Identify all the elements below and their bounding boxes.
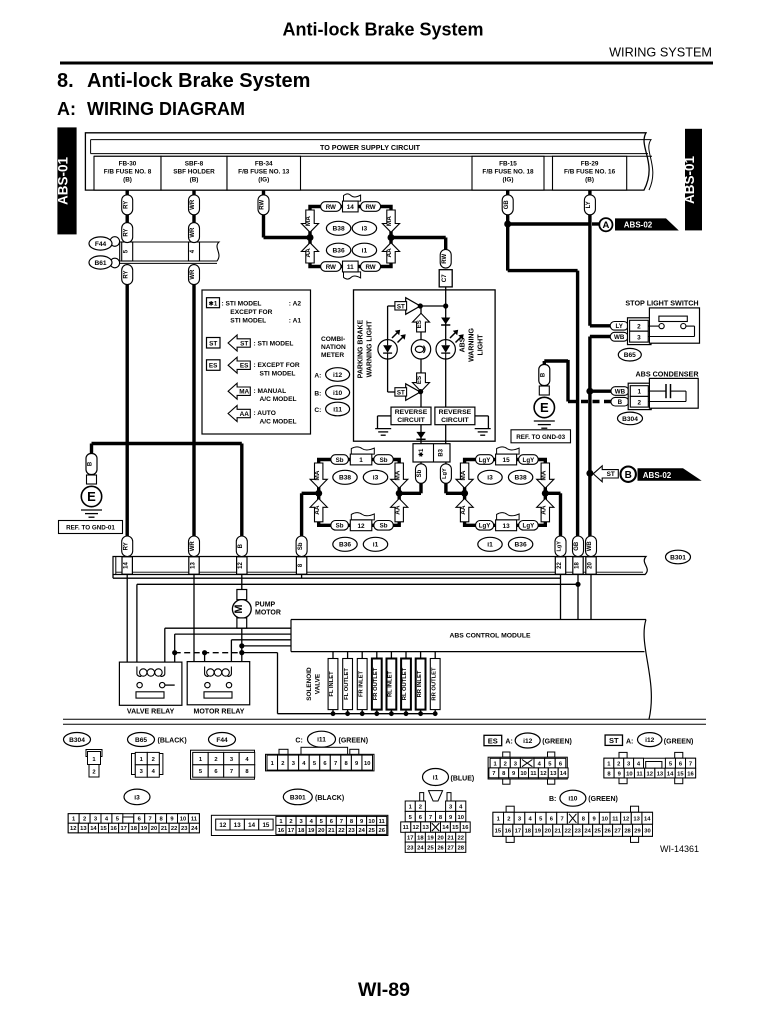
svg-text:15: 15 (503, 457, 511, 464)
svg-text:26: 26 (604, 829, 611, 835)
svg-text:AA: AA (541, 505, 548, 515)
abs condenser pin box 1/2 (628, 383, 651, 409)
label ABS CONTROL MODULE (449, 633, 531, 640)
svg-text:METER: METER (321, 352, 344, 359)
svg-text:STI MODEL: STI MODEL (230, 318, 266, 325)
svg-text:STI MODEL: STI MODEL (260, 371, 296, 378)
svg-text:WI-89: WI-89 (358, 979, 410, 1001)
wire LY to switch pin 2 (590, 324, 610, 327)
bus pin 12 wire B (236, 536, 247, 574)
solenoid valve FR INLET (357, 652, 367, 717)
svg-text:2: 2 (507, 817, 510, 823)
bus pin 18 wire GB (573, 536, 584, 574)
svg-text:ABS CONDENSER: ABS CONDENSER (635, 370, 699, 379)
svg-text:23: 23 (348, 828, 355, 834)
svg-text:ST: ST (397, 389, 405, 396)
svg-text:ST: ST (609, 736, 619, 745)
svg-text:ST: ST (397, 303, 405, 310)
svg-text:B3: B3 (438, 448, 444, 456)
svg-text:B61: B61 (94, 260, 106, 267)
connector block F44/B61 (110, 237, 219, 268)
ground E GND-03 (534, 365, 555, 429)
label PARKING BRAKE WARNING LIGHT (358, 319, 374, 378)
bus pin 14 wire RY (122, 536, 133, 574)
legend ES (207, 357, 300, 377)
svg-text:17: 17 (515, 829, 521, 835)
svg-text:AA: AA (386, 248, 393, 258)
svg-text:PARKING BRAKE: PARKING BRAKE (358, 319, 365, 378)
valve relay box (119, 662, 181, 705)
meter internal wires (388, 287, 446, 407)
svg-text:2: 2 (214, 757, 217, 763)
svg-text:EXCEPT FOR: EXCEPT FOR (230, 309, 272, 316)
svg-text:22: 22 (458, 835, 464, 841)
ABS-01 left banner (56, 127, 77, 234)
gauge symbol (411, 340, 430, 359)
svg-text:15: 15 (495, 829, 502, 835)
svg-text:i1: i1 (362, 248, 368, 255)
svg-text:14: 14 (90, 826, 97, 832)
svg-text:CIRCUIT: CIRCUIT (441, 417, 469, 424)
svg-text:16: 16 (110, 826, 117, 832)
ABS-01 right banner (682, 129, 702, 231)
svg-text:i3: i3 (373, 475, 379, 482)
wire pin 14 to valve relay contact (127, 575, 137, 686)
legend *1 (207, 298, 302, 325)
wire WR through block (189, 215, 200, 285)
svg-text:i3: i3 (134, 794, 140, 801)
svg-text:F44: F44 (95, 241, 107, 248)
svg-text:SBF-8: SBF-8 (185, 161, 204, 168)
meter connector B: i10 (314, 386, 349, 400)
abs condenser body (capacitor) (648, 378, 698, 408)
wire pin 22 to module (560, 575, 562, 620)
connector ST A: i12 pinout (604, 733, 696, 784)
svg-text:FB-29: FB-29 (581, 161, 599, 168)
connector B: i10 pinout (493, 790, 653, 842)
pill Sb below *1 (416, 462, 427, 483)
svg-text:F/B FUSE NO. 18: F/B FUSE NO. 18 (482, 169, 534, 176)
svg-text:A:: A: (57, 99, 76, 119)
svg-text:C:: C: (314, 407, 321, 414)
svg-text:NATION: NATION (321, 344, 346, 351)
svg-text:CIRCUIT: CIRCUIT (397, 417, 425, 424)
svg-text:13: 13 (657, 771, 664, 777)
svg-text:VALVE: VALVE (315, 673, 322, 694)
svg-text:RR INLET: RR INLET (417, 670, 423, 697)
wire GB from fuse, connector pill (502, 190, 513, 215)
connector i1 pinout (401, 769, 475, 853)
svg-text:(BLACK): (BLACK) (158, 738, 187, 745)
svg-text:AA: AA (314, 505, 321, 515)
figure number WI-14361 (660, 844, 699, 854)
svg-text:16: 16 (505, 829, 512, 835)
svg-text:28: 28 (624, 829, 631, 835)
svg-text:i1: i1 (433, 774, 439, 781)
svg-text:(GREEN): (GREEN) (542, 739, 572, 746)
svg-text:MOTOR: MOTOR (255, 610, 281, 617)
gate ST lower (395, 384, 420, 401)
diode to connector *1 (416, 425, 425, 444)
svg-text:SOLENOID: SOLENOID (306, 667, 313, 701)
header rule (60, 62, 713, 65)
svg-text:14: 14 (560, 771, 567, 777)
wire right branch to B3 (445, 425, 447, 444)
fuse FB-30 (94, 156, 161, 190)
svg-text:16: 16 (687, 771, 694, 777)
svg-text:REF. TO GND-03: REF. TO GND-03 (516, 434, 565, 441)
svg-text:MA: MA (239, 389, 249, 396)
svg-text:RW: RW (326, 204, 336, 211)
svg-text:2: 2 (504, 761, 507, 767)
svg-text:23: 23 (407, 845, 414, 851)
svg-text:RW: RW (442, 253, 448, 263)
svg-text:21: 21 (328, 828, 335, 834)
svg-text:RY: RY (123, 201, 129, 209)
meter connector A: i12 (314, 368, 349, 382)
module lines to relays (165, 628, 291, 677)
svg-text:RL INLET: RL INLET (388, 671, 394, 697)
svg-text:WR: WR (190, 269, 196, 280)
svg-text:10: 10 (626, 771, 632, 777)
svg-text:2: 2 (83, 817, 86, 823)
svg-text:: STI MODEL: : STI MODEL (222, 300, 262, 307)
label VALVE RELAY (127, 709, 175, 716)
svg-text:23: 23 (181, 826, 188, 832)
svg-text:ABS CONTROL MODULE: ABS CONTROL MODULE (449, 633, 531, 640)
svg-text:24: 24 (584, 829, 591, 835)
svg-text:2: 2 (419, 804, 422, 810)
svg-text:14: 14 (248, 822, 255, 829)
svg-text:2: 2 (152, 757, 155, 763)
fuse FB-15 (472, 156, 544, 190)
bus pin 20 wire WB (586, 536, 597, 574)
svg-text:C7: C7 (441, 274, 448, 282)
svg-text:F/B FUSE NO. 8: F/B FUSE NO. 8 (104, 169, 152, 176)
svg-text:MA: MA (386, 216, 393, 226)
svg-text:LgY: LgY (523, 523, 536, 530)
svg-text:20: 20 (318, 828, 324, 834)
svg-text:(GREEN): (GREEN) (664, 739, 694, 746)
svg-text:11: 11 (379, 819, 386, 825)
wire GB junction (504, 215, 590, 271)
svg-text:13: 13 (633, 817, 640, 823)
connector B61 oval (89, 256, 112, 269)
svg-text:10: 10 (364, 761, 370, 767)
stop light switch connector pills LY/WB (610, 322, 628, 342)
svg-text:13: 13 (550, 771, 557, 777)
svg-text:16: 16 (278, 828, 285, 834)
svg-text:MA: MA (394, 470, 401, 480)
svg-text:(GREEN): (GREEN) (339, 738, 369, 745)
svg-text:RW: RW (365, 204, 375, 211)
svg-text:25: 25 (594, 829, 601, 835)
bus pin 8 wire Sb (296, 536, 307, 574)
svg-text:i12: i12 (645, 737, 654, 744)
meter connector C: i11 (314, 402, 349, 416)
svg-text:1: 1 (359, 457, 363, 464)
ABS warning light LED (436, 330, 464, 359)
wire WB down to pin 20 with flag junction (586, 470, 593, 537)
connector B301 pinout (211, 789, 388, 835)
svg-text:7: 7 (560, 817, 563, 823)
svg-text:FL INLET: FL INLET (329, 671, 335, 697)
svg-text:B36: B36 (333, 248, 345, 255)
ABS control module box (291, 620, 651, 720)
svg-text:: A1: : A1 (289, 318, 302, 325)
combination meter label (321, 336, 346, 359)
arrow ES lower (413, 373, 430, 392)
svg-text:11: 11 (612, 817, 619, 823)
svg-text:15: 15 (677, 771, 684, 777)
wire RW bridge to C7 (391, 238, 446, 250)
svg-text:ES: ES (416, 376, 423, 384)
label ABS WARNING LIGHT (460, 328, 485, 362)
svg-text:i3: i3 (487, 475, 493, 482)
connector ES A: i12 pinout (484, 733, 572, 784)
connector C7 pill RW (439, 249, 452, 287)
svg-text:22: 22 (338, 828, 344, 834)
svg-text:STOP LIGHT SWITCH: STOP LIGHT SWITCH (625, 299, 698, 308)
svg-text:20: 20 (151, 826, 157, 832)
svg-text:12: 12 (238, 562, 244, 569)
svg-text:2: 2 (281, 761, 284, 767)
svg-text:AA: AA (240, 411, 250, 418)
svg-text:2: 2 (637, 323, 641, 330)
svg-text:MA: MA (305, 216, 312, 226)
fuse SBF-8 (161, 156, 227, 190)
svg-text:✱1: ✱1 (418, 448, 425, 457)
svg-text:7: 7 (334, 761, 337, 767)
svg-text:ABS-02: ABS-02 (643, 471, 672, 480)
svg-text:19: 19 (427, 835, 434, 841)
wire pump motor to junctions (232, 628, 245, 685)
connector B304 oval (618, 412, 643, 425)
wire LY down (588, 215, 591, 326)
svg-text:RY: RY (123, 542, 129, 550)
svg-text:12: 12 (623, 817, 629, 823)
subsection heading A (57, 99, 245, 119)
svg-text:24: 24 (358, 828, 365, 834)
connector F44 oval (89, 237, 112, 250)
svg-text:i11: i11 (317, 737, 326, 744)
wire RW down to bridge (264, 215, 311, 238)
svg-text:WIRING SYSTEM: WIRING SYSTEM (609, 46, 712, 60)
svg-text:LY: LY (586, 201, 592, 208)
svg-text:WIRING DIAGRAM: WIRING DIAGRAM (87, 99, 245, 119)
svg-text:13: 13 (422, 825, 429, 831)
svg-text:14: 14 (124, 562, 130, 569)
wire Sb to pin 8 (302, 493, 319, 536)
svg-text:14: 14 (442, 825, 449, 831)
svg-text:LgY: LgY (557, 541, 563, 552)
connector *1/B3 box (413, 444, 450, 462)
svg-text:B: B (88, 461, 94, 466)
svg-text:25: 25 (368, 828, 375, 834)
svg-text:ST: ST (240, 340, 248, 347)
svg-text:27: 27 (614, 829, 620, 835)
svg-text:FR INLET: FR INLET (358, 671, 364, 698)
svg-text:A/C MODEL: A/C MODEL (260, 396, 297, 403)
svg-text:Sb: Sb (336, 523, 344, 530)
svg-text:18: 18 (298, 828, 305, 834)
svg-text:12: 12 (219, 822, 226, 829)
svg-text:F/B FUSE NO. 13: F/B FUSE NO. 13 (238, 169, 290, 176)
stop light switch body (648, 308, 699, 343)
svg-text:(BLACK): (BLACK) (315, 795, 344, 802)
svg-text:19: 19 (308, 828, 315, 834)
harness bus B301 (113, 557, 647, 575)
page title (282, 20, 483, 40)
wire RY main run (125, 285, 128, 537)
svg-text:22: 22 (557, 562, 563, 569)
diode bridge Sb (connectors 1/12, B38,i3,B36,i1) (310, 447, 408, 551)
svg-text:27: 27 (447, 845, 453, 851)
svg-text:8.: 8. (57, 70, 74, 92)
svg-text:11: 11 (530, 771, 537, 777)
svg-text:WR: WR (190, 541, 196, 552)
label MOTOR RELAY (194, 709, 245, 716)
solenoid valve RL OUTLET (401, 652, 411, 717)
svg-text:REVERSE: REVERSE (395, 409, 428, 416)
connector F44 pinout (191, 733, 255, 780)
svg-text:Sb: Sb (417, 469, 423, 477)
svg-text:B301: B301 (670, 554, 686, 561)
svg-text:WI-14361: WI-14361 (660, 844, 699, 854)
svg-text:B301: B301 (290, 794, 306, 801)
svg-text:WB: WB (614, 334, 625, 341)
svg-text:A: A (602, 220, 609, 231)
svg-text:AA: AA (305, 248, 312, 258)
svg-text:7: 7 (492, 771, 495, 777)
fuse FB-29 (553, 156, 627, 190)
svg-text:RR OUTLET: RR OUTLET (431, 667, 437, 701)
label TO POWER SUPPLY CIRCUIT (320, 143, 421, 152)
svg-text:ES: ES (488, 736, 498, 745)
svg-text:14: 14 (347, 204, 355, 211)
svg-text:24: 24 (417, 845, 424, 851)
svg-text:i3: i3 (362, 226, 368, 233)
svg-text:ABS-01: ABS-01 (682, 156, 697, 205)
svg-text:: MANUAL: : MANUAL (254, 388, 287, 395)
svg-text:i10: i10 (333, 390, 342, 397)
svg-text:REF. TO GND-01: REF. TO GND-01 (66, 525, 115, 532)
stop light switch pin box 2/3 (628, 318, 652, 345)
svg-text:B: B (618, 399, 623, 406)
svg-text:FB-15: FB-15 (499, 161, 517, 168)
svg-text:Anti-lock Brake System: Anti-lock Brake System (87, 70, 310, 92)
svg-text:10: 10 (520, 771, 526, 777)
svg-text:A:: A: (505, 739, 512, 746)
gate ST upper (395, 298, 420, 315)
svg-text:: AUTO: : AUTO (254, 410, 276, 417)
svg-text:COMBI-: COMBI- (321, 336, 345, 343)
wire Sb to left lower bridge (399, 483, 421, 493)
dashed relay line (175, 650, 242, 674)
svg-text:26: 26 (379, 828, 386, 834)
svg-text:(B): (B) (123, 177, 132, 184)
svg-text:10: 10 (601, 817, 607, 823)
svg-text:LgY: LgY (442, 468, 448, 479)
fuse FB-34 (227, 156, 301, 190)
svg-text:2: 2 (289, 819, 292, 825)
svg-text:WARNING LIGHT: WARNING LIGHT (367, 320, 374, 377)
svg-text:B38: B38 (339, 475, 351, 482)
svg-text:E: E (540, 400, 549, 415)
svg-text:RY: RY (123, 229, 129, 237)
legend AA (228, 406, 296, 426)
svg-text:SBF HOLDER: SBF HOLDER (173, 169, 215, 176)
diode bridge RW (connectors 14/11, B38,i3,B36,i1) (301, 194, 399, 279)
wire WR main run (192, 285, 195, 537)
wire to ground GND-03 (544, 360, 568, 402)
diagram bottom border (63, 719, 706, 724)
svg-text:25: 25 (427, 845, 434, 851)
svg-text:21: 21 (161, 826, 168, 832)
svg-text:WR: WR (190, 199, 196, 210)
svg-text:2: 2 (617, 761, 620, 767)
legend ST (207, 335, 294, 351)
svg-text:MA: MA (541, 470, 548, 480)
svg-text:28: 28 (458, 845, 465, 851)
svg-text:18: 18 (574, 562, 580, 569)
svg-text:7: 7 (149, 817, 152, 823)
svg-text:LIGHT: LIGHT (478, 334, 485, 356)
svg-text:13: 13 (503, 523, 511, 530)
svg-text:B304: B304 (622, 416, 638, 423)
svg-text:MOTOR RELAY: MOTOR RELAY (194, 709, 245, 716)
svg-text:VALVE RELAY: VALVE RELAY (127, 709, 175, 716)
svg-text:B304: B304 (69, 737, 85, 744)
svg-text:B36: B36 (339, 542, 351, 549)
wire LgY to right lower bridge (446, 483, 465, 493)
stop light switch label (625, 299, 698, 308)
svg-text:B: B (541, 372, 547, 377)
svg-text:Sb: Sb (298, 542, 304, 550)
svg-text:14: 14 (644, 817, 651, 823)
svg-text:B:: B: (314, 390, 321, 397)
svg-text:3: 3 (637, 334, 641, 341)
svg-text:: A2: : A2 (289, 300, 302, 307)
fuse row frame (94, 156, 652, 190)
svg-text:(IG): (IG) (502, 177, 513, 184)
svg-text:18: 18 (131, 826, 138, 832)
svg-text:B38: B38 (515, 475, 527, 482)
motor relay box (187, 662, 250, 705)
svg-text:F44: F44 (216, 737, 228, 744)
wire RY from fuse, connector pill (122, 190, 133, 215)
label SOLENOID VALVE (306, 667, 322, 701)
connector i3 pinout (68, 789, 199, 833)
running head WIRING SYSTEM (609, 46, 712, 60)
wire WB with junction to condenser pin 1 (586, 337, 611, 473)
svg-text:FR OUTLET: FR OUTLET (373, 667, 379, 700)
svg-text:12: 12 (647, 771, 653, 777)
svg-text:AA: AA (460, 505, 467, 515)
svg-text:26: 26 (437, 845, 444, 851)
svg-text:Anti-lock Brake System: Anti-lock Brake System (282, 20, 483, 40)
svg-text:F/B FUSE NO. 16: F/B FUSE NO. 16 (564, 169, 616, 176)
svg-text:E: E (87, 489, 96, 504)
svg-text:12: 12 (540, 771, 546, 777)
svg-text:(B): (B) (190, 177, 199, 184)
svg-text:i1: i1 (373, 542, 379, 549)
svg-text:23: 23 (574, 829, 581, 835)
svg-text:PUMP: PUMP (255, 602, 276, 609)
power supply bus frame (85, 133, 652, 190)
svg-text:LgY: LgY (479, 457, 492, 464)
svg-text:24: 24 (191, 826, 198, 832)
